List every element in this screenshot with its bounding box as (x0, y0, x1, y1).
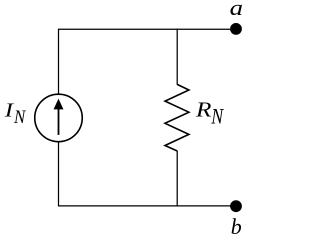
svg-text:a: a (230, 0, 243, 20)
svg-text:N: N (210, 105, 224, 129)
svg-text:I: I (4, 99, 15, 121)
svg-text:b: b (231, 214, 242, 239)
svg-text:N: N (13, 106, 27, 127)
svg-text:R: R (195, 98, 212, 122)
